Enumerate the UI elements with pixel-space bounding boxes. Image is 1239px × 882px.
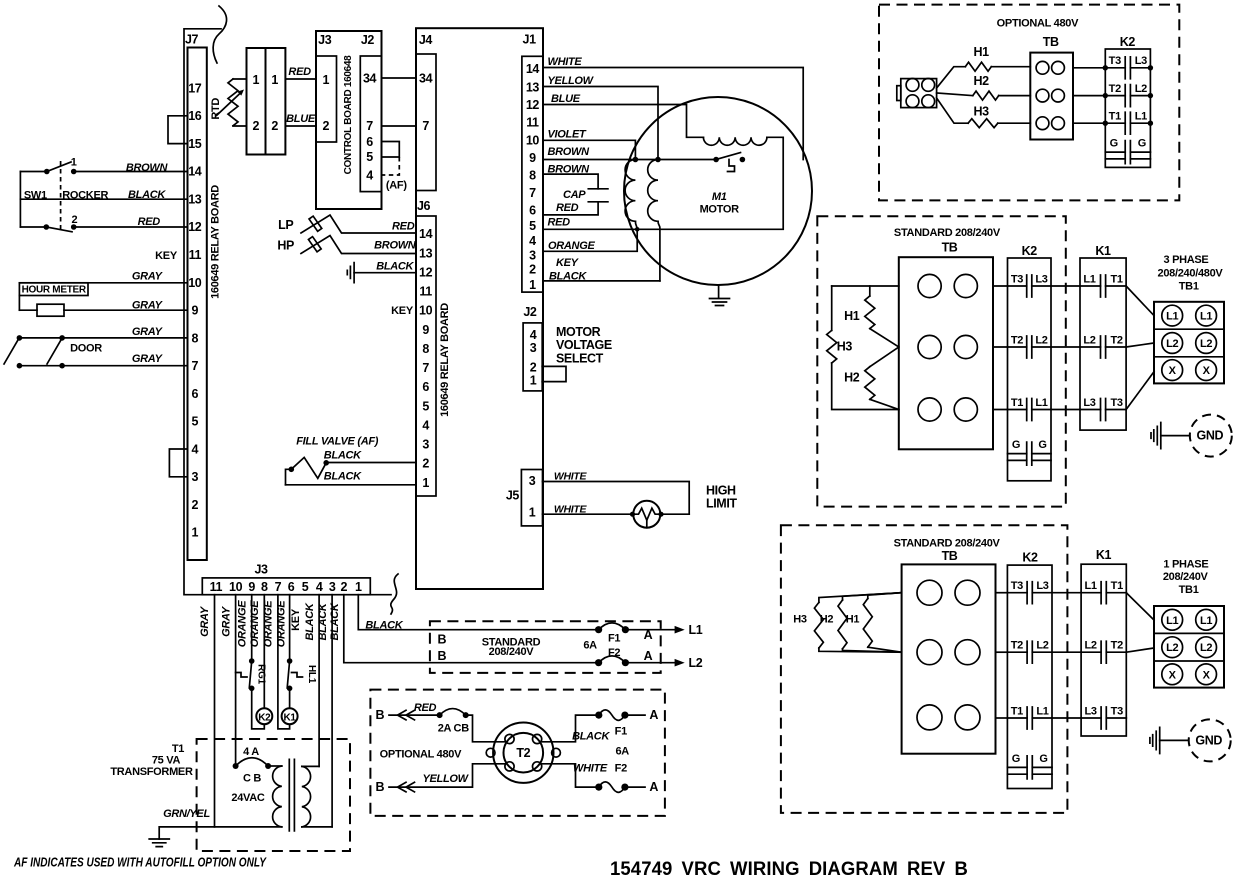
relay coil K2 (256, 708, 272, 724)
standard 208/240V dashed box (1 phase) (781, 525, 1068, 813)
svg-text:HOUR METER: HOUR METER (22, 285, 87, 296)
svg-text:J6: J6 (417, 199, 431, 213)
standard 208/240V dashed box (430, 621, 661, 673)
svg-text:X: X (1203, 669, 1211, 681)
motor start winding (648, 160, 658, 222)
wire YELLOW J1-13 (543, 87, 658, 160)
contactor K2 (3ph) box (1008, 258, 1052, 481)
wire B to 2A CB with arrows (389, 714, 440, 716)
svg-text:GRAY: GRAY (132, 326, 164, 338)
connector J7 pin box (188, 48, 207, 561)
svg-text:10: 10 (419, 304, 433, 318)
LP switch plate (309, 216, 322, 231)
wire BLACK J3-1 to L1 fuse (358, 595, 598, 630)
svg-text:T3: T3 (1011, 580, 1023, 592)
svg-text:L3: L3 (1135, 55, 1147, 67)
svg-text:4: 4 (529, 234, 536, 248)
K1 (1ph) contact row L2-T2 (1081, 651, 1126, 653)
wire WHITE J1-14 to motor switch (543, 68, 803, 160)
standard 208/240V dashed box (3 phase) (817, 216, 1066, 506)
wire BLACK ground to J6-12 (354, 272, 416, 274)
svg-text:6: 6 (288, 580, 295, 594)
wire ORANGE J3-6 to HL1 (289, 595, 291, 661)
wire GRAY to J7-10 (19, 282, 187, 284)
svg-text:8: 8 (192, 331, 199, 345)
heater H3 (3 phase) (831, 286, 833, 330)
RTD element leads (233, 79, 247, 126)
wire RG1 to K2 coil bottom (252, 688, 265, 729)
svg-text:B: B (437, 632, 446, 646)
heater H2 zigzag (973, 91, 999, 100)
wire ORANGE J3-8 to K2 coil (263, 595, 265, 709)
svg-text:ORANGE: ORANGE (263, 600, 275, 647)
svg-text:16: 16 (188, 109, 202, 123)
wire ground to GND circle (1160, 739, 1189, 741)
TB1 terminals X (1162, 664, 1183, 685)
svg-text:H1: H1 (846, 614, 860, 626)
svg-text:RED: RED (414, 702, 437, 714)
svg-text:VIOLET: VIOLET (548, 128, 588, 140)
svg-text:1: 1 (529, 278, 536, 292)
high limit thermostat symbol (633, 501, 660, 528)
svg-text:2: 2 (422, 457, 429, 471)
svg-text:T3: T3 (1110, 397, 1122, 409)
svg-text:2A CB: 2A CB (438, 723, 469, 735)
contactor K1 (1ph) box (1081, 564, 1126, 736)
svg-text:ORANGE: ORANGE (236, 600, 248, 647)
fuse F1 (599, 623, 626, 630)
K2 (top) contact row T3-L3 (1105, 67, 1150, 69)
circuit breaker CB 4A arc (236, 758, 269, 766)
svg-text:1: 1 (192, 526, 199, 540)
svg-text:OPTIONAL 480V: OPTIONAL 480V (380, 748, 462, 760)
fill valve dots (289, 467, 295, 473)
svg-text:RED: RED (556, 202, 579, 214)
svg-text:11: 11 (419, 285, 432, 299)
TB1 terminals L1 (1162, 305, 1183, 326)
RTD connector block (247, 48, 266, 155)
heater H1 zigzag (965, 62, 991, 71)
K2 (1ph) contact row T3-L3 (1007, 592, 1052, 594)
svg-text:SELECT: SELECT (556, 351, 604, 365)
wires K2 to K1 (1 phase) (1052, 592, 1081, 594)
transformer core (289, 759, 294, 831)
SW1 contact 2 arm (46, 227, 72, 232)
svg-text:L2: L2 (1135, 83, 1147, 95)
wire to L2 arrow (625, 662, 676, 664)
svg-text:RED: RED (288, 66, 311, 78)
svg-text:13: 13 (188, 193, 202, 207)
svg-text:WHITE: WHITE (573, 763, 608, 775)
svg-text:YELLOW: YELLOW (422, 773, 469, 785)
wire GRAY to J7-8 (19, 337, 187, 339)
wire K1-T3 to TB1 X (1126, 372, 1154, 410)
svg-text:15: 15 (188, 137, 202, 151)
transformer T1 dashed enclosure (197, 739, 350, 851)
svg-text:9: 9 (192, 304, 199, 318)
svg-text:J4: J4 (419, 33, 433, 47)
wire BROWN J1-9 to motor switch (543, 159, 716, 161)
K2 (3ph) contact row T3-L3 (1008, 285, 1052, 287)
switch SW1 common bracket wire (19, 172, 21, 228)
svg-text:OPTIONAL 480V: OPTIONAL 480V (997, 18, 1079, 30)
svg-text:VOLTAGE: VOLTAGE (556, 338, 612, 352)
svg-text:L2: L2 (1036, 640, 1048, 652)
svg-text:1: 1 (530, 374, 537, 388)
svg-text:HIGH: HIGH (706, 484, 736, 498)
heater H1 (1 phase) (868, 593, 902, 599)
wire HL1 to K1 coil (289, 688, 291, 708)
svg-text:K1: K1 (284, 712, 297, 723)
svg-text:A: A (644, 628, 653, 642)
svg-text:BLACK: BLACK (365, 620, 403, 632)
wire BLACK to J6-2 (326, 462, 416, 464)
svg-text:1: 1 (529, 505, 536, 519)
svg-text:8: 8 (261, 580, 268, 594)
K1 (3ph) contact row L3-T3 (1080, 409, 1126, 411)
svg-text:14: 14 (419, 227, 433, 241)
fuse F2 (optional) (599, 782, 625, 793)
svg-text:6: 6 (529, 204, 536, 218)
svg-text:J3: J3 (254, 563, 268, 577)
wire RED J1-5 to windings (543, 137, 783, 229)
K1 (1ph) contact row L3-T3 (1081, 717, 1126, 719)
connector J3 (bottom) pin box (202, 578, 370, 595)
svg-text:T1: T1 (172, 743, 184, 755)
svg-text:3: 3 (529, 248, 536, 262)
fill valve return loop (286, 469, 292, 485)
svg-text:H2: H2 (844, 370, 860, 384)
svg-text:B: B (375, 780, 384, 794)
svg-text:GND: GND (1195, 733, 1222, 747)
svg-text:RTD: RTD (210, 98, 222, 120)
svg-text:2: 2 (271, 119, 278, 133)
svg-text:208/240V: 208/240V (489, 646, 535, 658)
svg-text:TB: TB (942, 240, 958, 254)
wire K1-T1 to TB1 L1 (1 phase) (1126, 593, 1154, 620)
svg-text:2: 2 (71, 214, 77, 226)
motor ground symbol (710, 285, 730, 306)
connector J5 pin box (521, 470, 542, 526)
svg-text:GRAY: GRAY (220, 605, 232, 637)
wire T2 to fuse F1 (541, 715, 599, 742)
svg-text:L1: L1 (1084, 580, 1096, 592)
control board 160648 outline (316, 31, 382, 209)
svg-text:MOTOR: MOTOR (556, 325, 601, 339)
svg-text:L2: L2 (1035, 334, 1047, 346)
svg-text:G: G (1012, 753, 1020, 765)
480V connector block (901, 79, 937, 108)
wire J2-34 to J4-34 (382, 77, 417, 79)
svg-text:H1: H1 (974, 45, 990, 59)
relay board 160649 (left) outline (184, 29, 391, 595)
svg-text:6: 6 (366, 135, 373, 149)
connector J1 pin box (522, 56, 543, 292)
wire to L1 arrow (625, 629, 676, 631)
svg-text:34: 34 (419, 71, 433, 85)
svg-text:WHITE: WHITE (554, 471, 588, 483)
svg-text:G: G (1110, 138, 1118, 150)
svg-text:1: 1 (355, 580, 362, 594)
svg-text:2: 2 (253, 119, 260, 133)
K2 (1ph) contact row T1-L1 (1007, 717, 1052, 719)
svg-text:TB: TB (1043, 35, 1059, 49)
svg-text:7: 7 (366, 119, 373, 133)
K2 (3ph) contact row T2-L2 (1008, 346, 1052, 348)
wire BLACK J1-1 to start winding (543, 280, 660, 282)
svg-text:L1: L1 (1135, 111, 1147, 123)
wire CB to T2 primary (466, 715, 506, 742)
svg-text:8: 8 (422, 342, 429, 356)
svg-text:5: 5 (529, 219, 536, 233)
svg-text:5: 5 (366, 150, 373, 164)
svg-text:14: 14 (188, 165, 202, 179)
svg-text:T1: T1 (1109, 111, 1121, 123)
fuse F2 (599, 656, 626, 663)
wire VIOLET J1-10 (543, 140, 635, 159)
svg-text:12: 12 (526, 98, 540, 112)
heater H3 (1 phase) (819, 593, 902, 603)
relay contact RG1 (249, 661, 251, 688)
svg-text:6: 6 (192, 387, 199, 401)
svg-text:BLUE: BLUE (286, 113, 316, 125)
svg-text:LIMIT: LIMIT (706, 497, 737, 511)
svg-text:ORANGE: ORANGE (275, 600, 287, 647)
svg-text:J7: J7 (185, 33, 199, 47)
TB1 terminals L2 (1162, 637, 1183, 658)
svg-text:L3: L3 (1035, 273, 1047, 285)
wire BROWN J1-8 to capacitor (543, 174, 598, 189)
wire secondary bottom to J3-3 (302, 826, 332, 828)
wire H3 to TB (998, 122, 1031, 124)
svg-text:GRAY: GRAY (132, 300, 164, 312)
svg-text:K2: K2 (1120, 35, 1136, 49)
RTD arrow (217, 93, 242, 116)
wire BLACK to J6-1 (286, 484, 417, 486)
hour meter label box (19, 283, 88, 296)
svg-text:6A: 6A (615, 746, 629, 758)
svg-text:L1: L1 (1200, 311, 1212, 323)
wire BLACK J3-4 to transformer secondary (318, 595, 320, 767)
heater H3 zigzag (968, 119, 998, 128)
contactor K2 (top) box (1105, 49, 1150, 167)
svg-text:2: 2 (341, 580, 348, 594)
wire RED to J7-12 (74, 226, 188, 228)
K2 (3ph) contact row G-G (1008, 453, 1052, 455)
svg-text:3: 3 (529, 474, 536, 488)
svg-text:BLACK: BLACK (324, 449, 362, 461)
svg-text:3: 3 (530, 341, 537, 355)
winding junction dots (633, 157, 639, 163)
TB1 terminals X (1162, 360, 1183, 381)
svg-text:L2: L2 (1200, 338, 1212, 350)
hour meter element box (37, 304, 64, 316)
heater H2 (1 phase) (843, 593, 902, 600)
svg-text:KEY: KEY (155, 250, 178, 262)
centrifugal switch dots (713, 157, 719, 163)
wire WHITE J5-3 (543, 482, 690, 515)
svg-text:2: 2 (323, 119, 330, 133)
terminal block TB1 box (1154, 302, 1224, 384)
svg-text:7: 7 (422, 361, 429, 375)
svg-text:L2: L2 (1166, 338, 1178, 350)
GND dashed circle (1189, 719, 1231, 761)
GND dashed circle (1190, 415, 1232, 457)
wire K1-T2 to TB1 L2 (1 phase) (1126, 648, 1154, 652)
svg-text:4: 4 (192, 442, 199, 456)
SW1 mechanical link (dashed) (60, 161, 62, 231)
contactor K1 (3ph) box (1080, 258, 1126, 430)
svg-text:SW1: SW1 (24, 190, 47, 202)
svg-text:3: 3 (422, 438, 429, 452)
wire RED RTD to control board J3-1 (285, 78, 316, 80)
wires TB to K2 (3 phase) (993, 285, 1008, 287)
centrifugal switch arm (716, 153, 740, 160)
wire H1 to phase 2 (870, 329, 899, 347)
svg-text:T3: T3 (1011, 273, 1023, 285)
svg-text:BLACK: BLACK (572, 730, 610, 742)
wire segment to SW1 contact 1 (20, 171, 46, 173)
svg-text:L1: L1 (1036, 705, 1048, 717)
svg-text:BLACK: BLACK (304, 602, 316, 640)
svg-text:T1: T1 (1110, 273, 1122, 285)
motor M1 outline circle (624, 97, 812, 285)
heater H1 (3 phase) (869, 286, 871, 296)
svg-text:J3: J3 (318, 33, 332, 47)
svg-text:10: 10 (188, 276, 202, 290)
svg-text:J1: J1 (523, 32, 537, 46)
svg-text:L1: L1 (1200, 615, 1212, 627)
wire GRAY to J7-7 (19, 365, 187, 367)
svg-text:M1: M1 (712, 191, 727, 203)
svg-text:F2: F2 (615, 763, 627, 775)
relay contact HL1 (287, 661, 289, 688)
svg-text:X: X (1169, 365, 1177, 377)
svg-text:GND: GND (1197, 429, 1224, 443)
wire ORANGE J3-9 to RG1 (251, 595, 253, 661)
svg-text:5: 5 (302, 580, 309, 594)
wire hour meter drop (18, 296, 20, 311)
heater harness top wire (832, 285, 899, 287)
svg-text:G: G (1012, 439, 1020, 451)
wire K1-T2 to TB1 L2 (1126, 343, 1154, 347)
svg-text:L2: L2 (1166, 642, 1178, 654)
svg-text:T2: T2 (1011, 640, 1023, 652)
svg-text:A: A (649, 780, 658, 794)
svg-text:BROWN: BROWN (374, 239, 417, 251)
wires TB to K2 (1 phase) (996, 592, 1008, 594)
circuit breaker 2A CB arc (440, 709, 466, 716)
svg-text:6: 6 (422, 380, 429, 394)
relay coil K1 (282, 708, 298, 724)
svg-text:F1: F1 (608, 633, 620, 645)
svg-text:K2: K2 (258, 712, 271, 723)
wire ground to GND circle (1161, 435, 1190, 437)
svg-text:H3: H3 (793, 614, 807, 626)
svg-text:2: 2 (530, 361, 537, 375)
svg-text:17: 17 (188, 81, 202, 95)
svg-text:L2: L2 (689, 656, 703, 670)
svg-text:L2: L2 (1083, 334, 1095, 346)
connector J3 (control board) pin box (316, 56, 337, 142)
break squiggle top of J7 (213, 6, 226, 63)
SW1 contact 1 arm (47, 162, 71, 172)
svg-text:H2: H2 (974, 74, 990, 88)
earth ground symbol (149, 839, 169, 847)
motor main winding (625, 160, 635, 222)
svg-text:YELLOW: YELLOW (548, 75, 595, 87)
svg-text:9: 9 (422, 323, 429, 337)
connector J2 (relay board) pin box (523, 323, 542, 391)
svg-text:208/240V: 208/240V (1163, 571, 1209, 583)
connector J6 pin box (416, 216, 436, 496)
wire GRAY to J7-9 (19, 309, 187, 311)
svg-text:G: G (1038, 439, 1046, 451)
wire GRAY J3-10 to circuit breaker (235, 595, 237, 766)
svg-text:10: 10 (526, 133, 540, 147)
svg-text:F2: F2 (608, 647, 620, 659)
fill valve zigzag element (291, 457, 326, 478)
svg-text:L1: L1 (1035, 397, 1047, 409)
svg-text:STANDARD 208/240V: STANDARD 208/240V (894, 538, 1001, 550)
J3 bottom pin numbers 11-1 (210, 580, 362, 594)
wire WHITE J5-1 (543, 513, 690, 515)
wire BLACK to J7-13 (20, 198, 187, 200)
svg-text:T2: T2 (1110, 334, 1122, 346)
svg-text:3: 3 (192, 470, 199, 484)
svg-text:8: 8 (529, 168, 536, 182)
svg-text:13: 13 (419, 246, 433, 260)
svg-text:LP: LP (278, 218, 293, 232)
K2 (1ph) contact row T2-L2 (1007, 651, 1052, 653)
svg-text:BLACK: BLACK (128, 189, 166, 201)
ground symbol at GND (1150, 727, 1160, 753)
J7 jumper bracket pins 16-15 (168, 116, 188, 144)
centrifugal switch actuator hook (728, 160, 735, 172)
terminal block TB1 box (1154, 606, 1224, 688)
svg-text:L3: L3 (1036, 580, 1048, 592)
svg-text:BROWN: BROWN (126, 162, 169, 174)
svg-text:9: 9 (529, 151, 536, 165)
svg-text:WHITE: WHITE (548, 56, 583, 68)
wire F1 to A (625, 714, 645, 716)
svg-text:BLACK: BLACK (376, 261, 414, 273)
svg-text:J2: J2 (523, 305, 537, 319)
svg-text:BROWN: BROWN (548, 146, 591, 158)
svg-text:TB: TB (942, 549, 958, 563)
svg-text:WHITE: WHITE (554, 503, 588, 515)
jumper J2 pins 2-1 (542, 366, 566, 381)
svg-text:FILL VALVE (AF): FILL VALVE (AF) (296, 436, 379, 448)
svg-text:KEY: KEY (556, 257, 580, 269)
svg-text:L1: L1 (1166, 615, 1178, 627)
wire T2 lower left to B (389, 764, 506, 787)
svg-text:12: 12 (188, 220, 202, 234)
svg-text:154749 VRC WIRING DIAGRAM: 154749 VRC WIRING DIAGRAM REV B (610, 859, 968, 880)
svg-text:G: G (1039, 753, 1047, 765)
svg-text:HL1: HL1 (306, 665, 317, 684)
wire GRAY J3-11 to transformer common (214, 595, 216, 827)
svg-text:7: 7 (275, 580, 282, 594)
K1 (3ph) contact row L1-T1 (1080, 285, 1126, 287)
optional 480V dashed box (top right) (879, 5, 1179, 201)
svg-text:C B: C B (243, 772, 261, 784)
svg-text:12: 12 (419, 265, 433, 279)
connector J4 pin box (416, 54, 436, 191)
HP switch plate (308, 237, 321, 252)
connector J2 (control board) pin box (360, 56, 381, 192)
door switch dots (17, 335, 23, 341)
